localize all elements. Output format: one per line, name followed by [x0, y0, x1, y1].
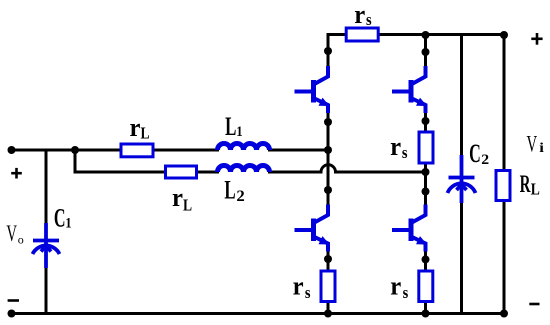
svg-text:V: V: [6, 222, 17, 247]
svg-text:o: o: [18, 233, 24, 247]
svg-text:1: 1: [65, 216, 71, 232]
svg-text:V: V: [527, 132, 538, 157]
svg-text:s: s: [305, 284, 311, 302]
svg-text:L: L: [141, 124, 150, 143]
svg-text:r: r: [390, 132, 401, 161]
svg-text:2: 2: [481, 151, 489, 168]
svg-text:L: L: [183, 196, 192, 215]
svg-text:s: s: [366, 11, 372, 29]
svg-text:r: r: [390, 272, 401, 301]
svg-text:L: L: [225, 111, 236, 141]
svg-text:L: L: [224, 175, 235, 205]
svg-text:2: 2: [236, 186, 244, 205]
svg-text:C: C: [54, 204, 66, 233]
svg-text:r: r: [172, 184, 183, 213]
svg-text:s: s: [403, 284, 409, 302]
svg-text:r: r: [354, 0, 365, 29]
svg-text:s: s: [402, 144, 408, 162]
svg-text:L: L: [531, 180, 540, 199]
svg-text:R: R: [520, 171, 532, 198]
svg-text:1: 1: [236, 124, 242, 140]
svg-text:r: r: [130, 113, 141, 142]
svg-text:i: i: [539, 140, 544, 155]
svg-text:r: r: [293, 272, 304, 301]
svg-text:C: C: [469, 139, 481, 168]
